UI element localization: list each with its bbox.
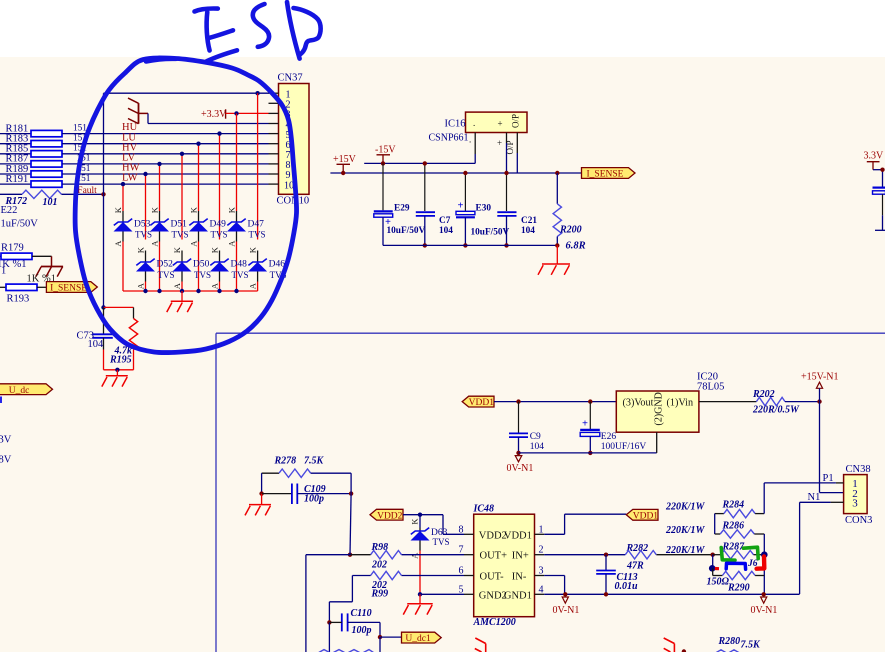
wire +3.3V to pin3 xyxy=(226,112,269,114)
wire -15V rail xyxy=(364,162,475,164)
wire pin4 xyxy=(148,113,269,123)
label R287 xyxy=(722,541,746,552)
svg-text:VDD2: VDD2 xyxy=(377,511,403,521)
net label HU xyxy=(122,122,138,133)
svg-text:3V: 3V xyxy=(0,434,12,445)
svg-text:E30: E30 xyxy=(476,203,492,213)
fragment blue mark xyxy=(0,397,2,404)
junction R98 left xyxy=(348,553,352,557)
svg-text:CON10: CON10 xyxy=(277,196,310,207)
net label Fault xyxy=(77,186,97,196)
wire C109 left stub xyxy=(262,493,292,495)
svg-text:TVS: TVS xyxy=(211,230,228,240)
label C110 xyxy=(351,608,372,619)
wire C113 top xyxy=(605,555,607,570)
net label P1 xyxy=(823,473,834,484)
wire R195/C73 bus xyxy=(104,369,134,371)
svg-text:K: K xyxy=(149,206,159,213)
wire R284-R286 left xyxy=(715,514,721,534)
resistor R183 xyxy=(0,141,269,147)
resistor R284 xyxy=(715,509,765,517)
wire C109 right xyxy=(297,493,351,495)
label R191 xyxy=(6,174,29,185)
wire +15V rail xyxy=(330,172,581,174)
pin A (D63) xyxy=(410,552,420,559)
junction C21 bottom xyxy=(504,243,508,247)
junction anode bus x=219.5 xyxy=(217,289,221,293)
label D47 xyxy=(248,219,265,229)
svg-text:R179: R179 xyxy=(1,243,24,254)
value 220R/0.5W xyxy=(752,404,800,415)
svg-text:TVS: TVS xyxy=(232,270,249,280)
junction C21 top xyxy=(504,171,508,175)
wire column x=123.0 xyxy=(122,184,124,211)
pin K (D47) xyxy=(226,206,236,213)
label R181 xyxy=(6,123,29,134)
power +15V-N1 xyxy=(801,372,839,402)
resistor R191 xyxy=(0,181,269,187)
value 101 xyxy=(43,197,58,208)
svg-text:C110: C110 xyxy=(351,608,372,619)
svg-text:R278: R278 xyxy=(274,455,297,466)
value 151 (R189) xyxy=(77,164,91,174)
svg-text:CSNP661: CSNP661 xyxy=(429,133,469,144)
svg-text:.: . xyxy=(473,118,475,128)
svg-text:U_dc: U_dc xyxy=(9,386,30,396)
pin A (D51) xyxy=(149,240,159,247)
label TVS (D49) xyxy=(211,230,228,240)
handwriting ESD xyxy=(195,2,321,61)
resistor R193 xyxy=(0,284,46,290)
wire R287 right down xyxy=(763,555,765,594)
svg-text:D46: D46 xyxy=(269,260,286,270)
capacitor C109 xyxy=(292,484,297,505)
wire E26 bottom xyxy=(589,436,591,453)
svg-text:A: A xyxy=(247,282,257,289)
label AMC1200 xyxy=(473,617,516,628)
junction -15V xyxy=(381,161,385,165)
pin K (D49) xyxy=(188,206,198,213)
wire pin1 vertical xyxy=(103,93,105,307)
svg-text:4: 4 xyxy=(539,584,544,595)
pin A (D47) xyxy=(226,240,236,247)
net label I_SENSE (right) xyxy=(582,168,636,180)
label CSNP661 xyxy=(429,133,469,144)
value 151 (R191) xyxy=(77,174,91,184)
pin A (D48) xyxy=(209,282,219,289)
label R284 xyxy=(722,500,745,511)
wire R290 right xyxy=(755,575,764,577)
power +3.3V xyxy=(201,109,227,120)
label E30 xyxy=(476,203,492,213)
IC48 pin stubs xyxy=(464,534,544,594)
svg-text:C9: C9 xyxy=(530,432,541,442)
svg-text:-15V: -15V xyxy=(375,145,396,156)
svg-text:K: K xyxy=(188,206,198,213)
svg-text:A: A xyxy=(226,240,236,247)
pin name . (IC16) xyxy=(473,118,475,128)
pin names left (IC48) xyxy=(479,530,507,601)
value 220K/1W (R287) xyxy=(665,545,705,556)
resistor R189 xyxy=(0,171,269,177)
junction C110 left xyxy=(327,620,331,624)
svg-text:1: 1 xyxy=(539,524,544,535)
chassis ground (R179) xyxy=(36,256,63,276)
svg-text:R286: R286 xyxy=(722,520,745,531)
junction C109 right xyxy=(349,491,353,495)
resistor R287 xyxy=(713,551,765,559)
junction R287 left xyxy=(711,553,715,557)
junction anode bus x=159.5 xyxy=(157,289,161,293)
wire column x=145.5 xyxy=(145,174,147,240)
svg-text:3: 3 xyxy=(539,566,544,577)
ground (D63) xyxy=(403,604,433,615)
capacitor C21 xyxy=(497,212,516,216)
label D53 xyxy=(134,219,151,229)
wire N1 xyxy=(800,502,831,594)
junction C113 bottom xyxy=(604,592,608,596)
wire E30 top xyxy=(464,173,466,211)
wire R98 left xyxy=(350,554,371,556)
wire C21 top xyxy=(506,173,508,211)
ic IC48 box xyxy=(474,514,535,617)
junction R287 right (big) xyxy=(761,551,768,558)
label R187 xyxy=(6,154,29,165)
wire node to R195 xyxy=(104,306,134,308)
label J6 xyxy=(747,559,758,569)
label TVS (D50) xyxy=(194,270,211,280)
label R200 xyxy=(559,224,582,235)
wire E26 top xyxy=(589,402,591,429)
label TVS (D48) xyxy=(232,270,249,280)
junction anode bus x=198.5 xyxy=(196,289,200,293)
wire column x=257.6 xyxy=(257,93,259,239)
junction +15V xyxy=(341,171,345,175)
junction LU column xyxy=(196,142,200,146)
wire column x=159.5 xyxy=(159,164,161,211)
svg-text:TVS: TVS xyxy=(249,230,266,240)
resistor R278 xyxy=(262,469,352,477)
label TVS (D51) xyxy=(172,230,189,240)
value 47R xyxy=(626,561,644,572)
junction anode bus x=182.0 xyxy=(180,289,184,293)
resistor R282 xyxy=(625,551,656,559)
junction HU column xyxy=(217,131,221,135)
label E26 xyxy=(601,432,617,442)
pin number . (IC16) xyxy=(469,135,471,145)
label D48 xyxy=(231,260,248,270)
wire R290 left xyxy=(713,568,723,575)
svg-text:6.8R: 6.8R xyxy=(566,240,586,251)
svg-text:GND2: GND2 xyxy=(479,590,507,601)
label R286 xyxy=(722,520,745,531)
svg-text:K: K xyxy=(172,246,182,253)
capacitor C (right edge) xyxy=(873,188,885,195)
ground (R195) xyxy=(102,376,128,387)
junction E30 top xyxy=(463,171,467,175)
svg-text:(3)Vout: (3)Vout xyxy=(623,397,654,408)
wire pin1 top xyxy=(104,92,269,94)
label R172 xyxy=(5,196,28,207)
label R282 xyxy=(626,543,649,554)
wire IC20 out xyxy=(699,401,757,403)
junction 0V-N1 (right) xyxy=(762,592,766,596)
value 1K %1 (R193) xyxy=(27,273,56,284)
wire pin1 to VDD1 xyxy=(544,514,626,534)
svg-text:151: 151 xyxy=(73,123,87,133)
CN38 pin stubs xyxy=(831,483,844,502)
value 7.5K (R278) xyxy=(304,455,325,466)
junction C7 top xyxy=(423,161,427,165)
wire C110 left stub xyxy=(329,621,341,623)
IC48 pin numbers left xyxy=(459,524,464,595)
value 100p (C109) xyxy=(304,494,324,505)
value 0.01u xyxy=(615,581,639,592)
svg-text:K: K xyxy=(226,206,236,213)
pin A (D53) xyxy=(113,240,123,247)
svg-text:150Ω: 150Ω xyxy=(707,577,730,588)
svg-text:220R/0.5W: 220R/0.5W xyxy=(752,404,800,415)
svg-text:10: 10 xyxy=(284,180,294,191)
value 104 (C21) xyxy=(521,226,535,236)
label C21 xyxy=(521,216,537,226)
wire R278 left down xyxy=(261,473,263,493)
pin K (D63) xyxy=(410,518,420,525)
svg-text:IC20: IC20 xyxy=(697,371,718,382)
capacitor E29 xyxy=(374,211,393,228)
label E29 xyxy=(394,203,410,213)
svg-text:104: 104 xyxy=(439,226,453,236)
svg-text:D53: D53 xyxy=(134,219,151,229)
wire R195 top stub xyxy=(133,307,135,318)
svg-text:R191: R191 xyxy=(6,174,29,185)
net label LV xyxy=(122,153,135,164)
value 6.8R xyxy=(566,240,586,251)
IC48 pin numbers right xyxy=(539,524,544,595)
svg-text:(2)GND: (2)GND xyxy=(654,392,665,425)
wire R287 left down xyxy=(712,555,714,569)
wire E29 top xyxy=(382,163,384,210)
wire R202 right xyxy=(785,401,820,403)
label D49 xyxy=(210,219,227,229)
junction E26 bottom xyxy=(588,451,592,455)
fragment red port 1 xyxy=(475,638,486,652)
value 151 (R187) xyxy=(77,154,91,164)
wire IN+ node xyxy=(656,554,712,556)
ic IC16 box xyxy=(466,112,528,132)
pin K (D50) xyxy=(172,246,182,253)
svg-text:IN+: IN+ xyxy=(512,551,529,562)
svg-text:R287: R287 xyxy=(722,541,746,552)
svg-text:E22: E22 xyxy=(1,205,18,216)
wire C73 top stub xyxy=(103,307,105,334)
pin 3 wire (IC16 right) xyxy=(516,133,518,174)
svg-text:VDD1: VDD1 xyxy=(504,530,532,541)
svg-text:K: K xyxy=(247,246,257,253)
net label HW xyxy=(122,163,140,174)
svg-text:OUT+: OUT+ xyxy=(480,551,508,562)
net label VDD1 (IC48) xyxy=(626,509,658,521)
wire 0V-N1 rail xyxy=(544,593,799,595)
value 4.7k xyxy=(114,345,133,356)
svg-text:D51: D51 xyxy=(171,219,188,229)
junction 3.3V xyxy=(880,168,884,172)
wire R195 bottom xyxy=(133,350,135,370)
wire Fault right xyxy=(62,193,104,195)
svg-text:TVS: TVS xyxy=(433,537,450,547)
svg-text:100p: 100p xyxy=(304,494,324,505)
capacitor C113 xyxy=(596,571,616,574)
svg-text:A: A xyxy=(209,282,219,289)
wire U_dc1 stub xyxy=(380,636,402,638)
svg-text:+: + xyxy=(497,119,502,129)
svg-text:R290: R290 xyxy=(727,583,750,594)
svg-text:R193: R193 xyxy=(7,293,30,304)
net label HV xyxy=(122,142,138,153)
power -15V xyxy=(375,145,396,164)
svg-text:100UF/16V: 100UF/16V xyxy=(601,442,647,452)
power 3.3V xyxy=(864,150,885,169)
wire P1 xyxy=(764,482,836,484)
label C7 xyxy=(439,216,451,226)
text fragment 8V xyxy=(0,454,12,465)
svg-text:104: 104 xyxy=(88,339,105,350)
wire column x=182.0 xyxy=(181,154,183,240)
svg-text:47R: 47R xyxy=(626,561,644,572)
svg-text:A: A xyxy=(135,282,145,289)
wire R286 right xyxy=(754,534,764,555)
svg-text:+: + xyxy=(582,419,588,430)
svg-text:R200: R200 xyxy=(559,224,582,235)
resistor R99 xyxy=(371,571,402,579)
svg-text:CON3: CON3 xyxy=(845,515,872,526)
svg-text:CN38: CN38 xyxy=(846,464,871,475)
pin names right (IC48) xyxy=(504,530,532,601)
resistor R179 xyxy=(0,253,52,259)
resistor R181 xyxy=(0,130,269,136)
svg-text:1: 1 xyxy=(1,266,6,277)
pin K (D51) xyxy=(149,206,159,213)
svg-text:+: + xyxy=(497,138,502,148)
label R278 xyxy=(274,455,297,466)
svg-text:7.5K: 7.5K xyxy=(741,639,762,650)
wire C7 top xyxy=(424,163,426,211)
junction R195 bus xyxy=(115,368,119,372)
svg-text:TVS: TVS xyxy=(135,230,152,240)
svg-text:A: A xyxy=(188,240,198,247)
svg-text:A: A xyxy=(113,240,123,247)
label C9 xyxy=(530,432,541,442)
label CN37 xyxy=(278,73,303,84)
svg-text:K: K xyxy=(135,246,145,253)
label CN38 xyxy=(846,464,871,475)
resistor R98 xyxy=(371,551,402,559)
handwriting circle (ESD loop) xyxy=(75,58,296,353)
svg-text:VDD1: VDD1 xyxy=(633,511,659,521)
svg-text:100p: 100p xyxy=(352,625,372,636)
svg-text:(1)Vin: (1)Vin xyxy=(667,397,694,408)
pin K (D48) xyxy=(209,246,219,253)
net label VDD1 (top) xyxy=(462,396,494,408)
junction +3.3V/D47 column xyxy=(234,111,238,115)
CN37 pin stubs xyxy=(269,93,279,184)
svg-text:220K/1W: 220K/1W xyxy=(665,525,705,536)
pin name + (IC16) xyxy=(497,119,502,129)
value 104 (C9) xyxy=(530,442,545,452)
diode D50 TVS xyxy=(173,251,192,292)
svg-text:+15V-N1: +15V-N1 xyxy=(801,372,839,383)
pin K (D46) xyxy=(247,246,257,253)
svg-text:101: 101 xyxy=(43,197,58,208)
hand mark red (right) xyxy=(715,557,765,569)
connector CN37 box xyxy=(279,84,310,195)
wire cap bottom (right edge) xyxy=(875,194,885,230)
label IC16 xyxy=(445,118,466,129)
junction C109 left xyxy=(259,491,263,495)
svg-text:TVS: TVS xyxy=(158,270,175,280)
svg-text:CN37: CN37 xyxy=(278,73,303,84)
wire pin3 IN- xyxy=(544,576,564,595)
wire R200 top xyxy=(556,173,558,204)
junction C9 bottom xyxy=(516,451,520,455)
wire pin7 OUT+ xyxy=(402,554,465,556)
wire C9/E26 bottom bus xyxy=(519,452,657,454)
svg-text:R195: R195 xyxy=(109,355,132,366)
svg-text:C7: C7 xyxy=(439,216,451,226)
pin (1)Vin xyxy=(667,397,694,408)
diode D47 TVS xyxy=(227,211,246,291)
svg-text:I_SENSE: I_SENSE xyxy=(50,284,87,294)
label D51 xyxy=(171,219,188,229)
resistor R195 xyxy=(129,319,137,350)
chassis ground (pin4) xyxy=(128,98,148,124)
ground (C109) xyxy=(245,505,271,516)
net label I_SENSE (left) xyxy=(46,282,97,294)
ic IC20 box xyxy=(616,391,699,432)
resistor R286 xyxy=(720,530,754,538)
svg-text:220K/1W: 220K/1W xyxy=(665,502,705,513)
resistor R185 xyxy=(0,151,269,157)
wire +15V-N1 to CN38 pin2 xyxy=(820,402,844,493)
wire column x=219.5 xyxy=(219,134,221,240)
svg-text:+3.3V: +3.3V xyxy=(201,109,227,120)
fragment resistor R280 zigzag xyxy=(715,650,741,652)
svg-text:E26: E26 xyxy=(601,432,617,442)
svg-text:IC16: IC16 xyxy=(445,118,466,129)
junction anode bus x=236.5 xyxy=(234,289,238,293)
wire column x=198.5 xyxy=(198,144,200,211)
junction pin1/D46 column xyxy=(255,91,259,95)
junction U_dc1 xyxy=(378,635,382,639)
pin number O/P (IC16) xyxy=(505,140,515,154)
svg-text:3: 3 xyxy=(852,498,858,510)
resistor R187 xyxy=(0,161,269,167)
wire caps bottom bus xyxy=(383,244,557,246)
resistor R172 xyxy=(22,190,62,198)
CN38 pin numbers xyxy=(852,478,858,510)
diode D52 TVS xyxy=(136,251,155,292)
wire pin2 IN+ xyxy=(544,554,625,556)
svg-text:D47: D47 xyxy=(248,219,265,229)
junction anode bus x=145.5 xyxy=(143,289,147,293)
capacitor E26 xyxy=(580,419,600,437)
junction HV column xyxy=(180,152,184,156)
wire U_dc1 down xyxy=(379,637,381,652)
label E22 xyxy=(1,205,18,216)
svg-text:O/P: O/P xyxy=(511,114,521,128)
wire diode anode bus xyxy=(123,290,258,292)
label D46 xyxy=(269,260,286,270)
